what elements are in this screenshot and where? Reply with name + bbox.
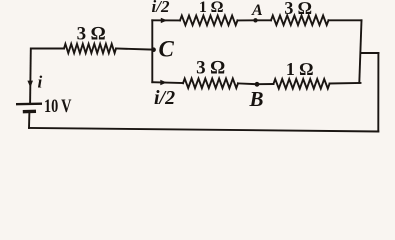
wire: inner right vertical (top branch down to bottom branch junction) — [359, 20, 361, 83]
svg-text:A: A — [251, 2, 263, 19]
wire: node B to R5 — [257, 83, 274, 85]
svg-text:C: C — [159, 37, 175, 62]
wire: R3 to top-right corner — [329, 19, 362, 21]
resistor R3 3 ohm (top branch right) — [271, 16, 329, 26]
svg-text:3 Ω: 3 Ω — [77, 23, 106, 44]
battery BT1 10V: short negative plate — [23, 110, 36, 114]
current arrow i (down) on left wire — [27, 81, 33, 88]
svg-text:i/2: i/2 — [152, 0, 170, 16]
svg-text:10 V: 10 V — [44, 96, 72, 117]
resistor R5 1 ohm (bottom branch) — [274, 79, 330, 89]
resistor R1 3 ohm (left) — [64, 44, 116, 53]
wire: node A to R3 — [256, 19, 272, 21]
node B junction dot — [255, 82, 260, 87]
wire: battery lower lead down to bottom wire — [28, 112, 30, 128]
svg-text:1 Ω: 1 Ω — [199, 0, 223, 16]
wire: bottom branch left segment C to R4 — [152, 81, 183, 84]
node C junction dot — [151, 47, 156, 52]
wire: vertical through node C (top branch to bottom branch) — [151, 20, 153, 82]
wire: main left horizontal from battery to R1 — [31, 48, 64, 50]
wire: R1 to node C — [116, 49, 152, 50]
current arrow i/2 (right) on top branch — [161, 18, 168, 23]
current arrow i/2 (right) on bottom branch — [160, 80, 167, 85]
svg-text:1 Ω: 1 Ω — [286, 59, 314, 79]
wire: outer right vertical — [377, 53, 379, 132]
resistor R2 1 ohm (top branch) — [180, 16, 238, 26]
svg-text:i/2: i/2 — [154, 87, 175, 109]
wire: R5 to inner right vertical — [330, 82, 361, 85]
node A junction dot — [253, 18, 257, 22]
wire: bottom return wire — [29, 128, 378, 132]
svg-text:i: i — [38, 73, 43, 92]
svg-text:B: B — [249, 87, 264, 111]
wire: left vertical from main wire down to battery — [29, 49, 32, 104]
wire: stub from inner vertical to outer right vertical — [361, 52, 379, 54]
wire: R4 to node B — [238, 82, 257, 85]
resistor R4 3 ohm (bottom branch) — [183, 79, 238, 89]
wire: top branch left segment C to R2 — [152, 19, 180, 21]
svg-text:3 Ω: 3 Ω — [196, 58, 225, 79]
wire: R2 to node A — [238, 19, 256, 21]
svg-text:3 Ω: 3 Ω — [284, 0, 312, 18]
battery BT1 10V: long positive plate — [16, 102, 42, 105]
